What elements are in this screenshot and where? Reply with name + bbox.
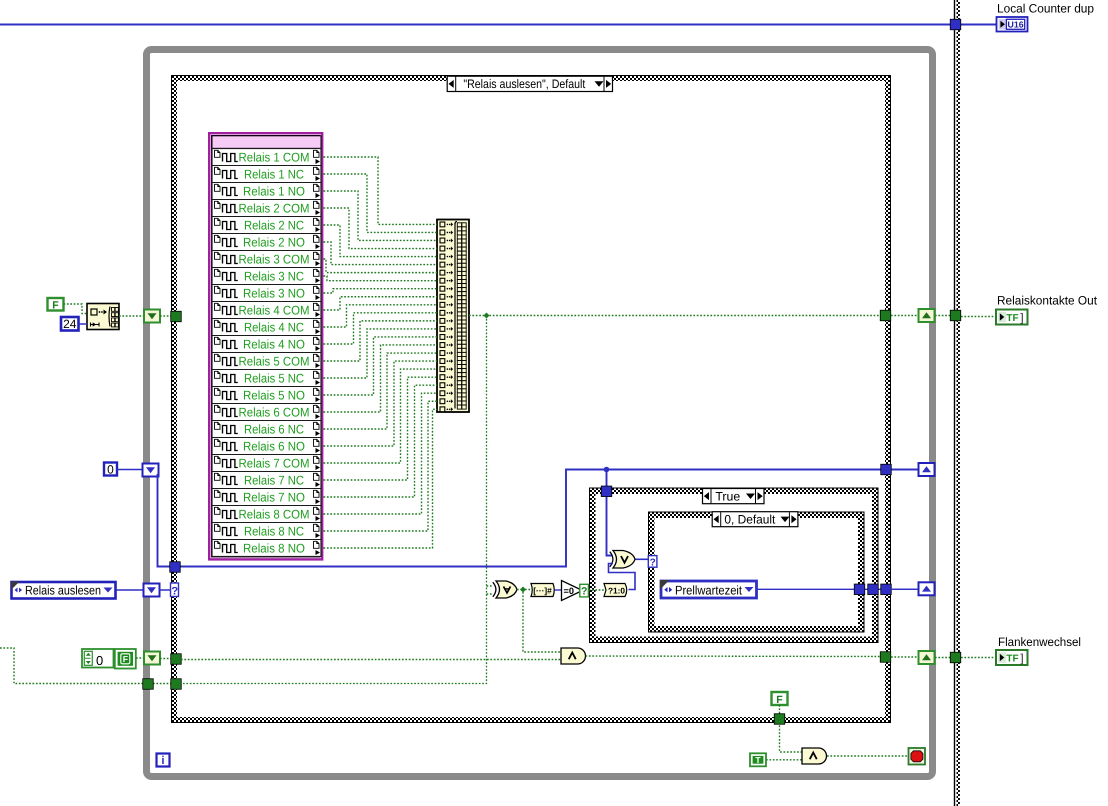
wire AND to stop terminal <box>827 755 908 757</box>
svg-text:Relais 3 NO: Relais 3 NO <box>243 287 305 301</box>
shift register right (flag) <box>919 651 935 664</box>
wire select-hook to OR lower input <box>609 564 636 590</box>
boolean local variable Relais 2 NC <box>212 217 321 233</box>
case tunnel green (y316) <box>171 311 182 322</box>
boolean local variable Relais 3 COM <box>212 251 321 267</box>
Select ?1:0 node <box>604 584 627 597</box>
enum constant Relais auslesen <box>11 582 116 599</box>
wire 0 to shift register <box>117 469 143 471</box>
label Flankenwechsel <box>998 635 1081 649</box>
svg-text:Relais 6 NC: Relais 6 NC <box>244 423 304 437</box>
wire F down through case border <box>780 705 803 752</box>
shift register right (enum) <box>919 582 935 595</box>
svg-text:Relais 5 NO: Relais 5 NO <box>243 389 305 403</box>
svg-text:24: 24 <box>63 317 77 331</box>
True case label <box>703 489 765 504</box>
wire OR out to inner selector <box>636 558 650 560</box>
wire F to Initialize Array <box>64 304 88 314</box>
svg-text:F: F <box>776 694 783 706</box>
wire enum to shift register <box>116 589 143 591</box>
shift register left (counter) <box>143 464 159 477</box>
local variable Prellwartezeit <box>660 580 757 598</box>
svg-text:F: F <box>52 300 59 312</box>
wire y315 gap <box>891 315 918 317</box>
cluster frame (Relais contacts) <box>209 133 322 559</box>
case tunnel green (y657) <box>880 652 891 663</box>
cluster header band <box>212 136 321 149</box>
svg-text:Relais 5 COM: Relais 5 COM <box>239 355 310 369</box>
wire array branch down to OR inputs and out bottom-left <box>181 316 493 684</box>
wire AND out to case tunnel <box>586 655 881 658</box>
wire Build Array output to case tunnel (boolean array) <box>469 315 880 317</box>
svg-text:0, Default: 0, Default <box>724 513 776 527</box>
wire Initialize Array to shift register <box>119 315 144 317</box>
boolean local variable Relais 6 NC <box>212 421 321 437</box>
junction at array output branch <box>484 313 490 319</box>
True case top tunnel (blue) <box>601 486 612 497</box>
AND gate (stop logic) <box>802 748 827 764</box>
0,Default case label <box>712 512 798 527</box>
Equal To 0 node <box>562 581 583 601</box>
wire Prellwartezeit to shift register <box>757 588 919 590</box>
boolean local variable Relais 8 COM <box>212 506 321 522</box>
tunnel blue on 0,Default border <box>854 584 865 595</box>
tunnel blue on True border <box>868 584 879 595</box>
boolean local variable Relais 1 NC <box>212 166 321 182</box>
svg-text:Relais 2 NO: Relais 2 NO <box>243 236 305 250</box>
svg-text:F: F <box>123 654 128 664</box>
boolean local variable Relais 1 NO <box>212 183 321 199</box>
boolean local variable Relais 8 NC <box>212 523 321 539</box>
svg-text:Relais 4 NC: Relais 4 NC <box>244 321 304 335</box>
boolean local variable Relais 5 NC <box>212 370 321 386</box>
svg-text:Relais 7 NC: Relais 7 NC <box>244 474 304 488</box>
edge tunnel green (y315) <box>950 310 961 321</box>
svg-text:Relais 1 NO: Relais 1 NO <box>243 185 305 199</box>
svg-text:TF: TF <box>1006 654 1018 665</box>
while loop border <box>147 50 933 777</box>
svg-text:?: ? <box>650 557 656 568</box>
boolean local variable Relais 5 NO <box>212 387 321 403</box>
wire 24 to Initialize Array <box>79 323 88 325</box>
wire feedback through border gap (y683) <box>153 683 171 685</box>
svg-text:Flankenwechsel: Flankenwechsel <box>998 635 1081 649</box>
loop stop terminal <box>909 748 926 765</box>
edge tunnel blue (y24) <box>950 19 961 30</box>
svg-text:?1:0: ?1:0 <box>608 586 625 596</box>
boolean local variable Relais 4 NC <box>212 319 321 335</box>
svg-text:U16: U16 <box>1008 19 1024 29</box>
svg-text:[···]#: [···]# <box>533 585 552 595</box>
indicator Relaiskontakte Out [TF] <box>996 310 1028 325</box>
boolean local variable Relais 2 NO <box>212 234 321 250</box>
wire Local Counter (blue, top) <box>0 23 997 25</box>
boolean local variable Relais 4 COM <box>212 302 321 318</box>
svg-text:Relais 8 COM: Relais 8 COM <box>239 508 310 522</box>
True case selector ? <box>580 584 589 597</box>
wire y315 to TF indicator <box>961 316 996 318</box>
svg-text:Relais 2 NC: Relais 2 NC <box>244 219 304 233</box>
shift register left (bool array) <box>144 310 160 323</box>
boolean local variable Relais 8 NO <box>212 540 321 556</box>
wire counter: SR down, along y566, up x566, right to right SR <box>158 470 919 567</box>
boolean local variable Relais 4 NO <box>212 336 321 352</box>
shift register right (counter) <box>919 463 935 476</box>
wire feedback outside loop (bottom-left, exits left edge) <box>0 648 143 684</box>
boolean local variable Relais 3 NO <box>212 285 321 301</box>
case tunnel blue (y469) <box>881 464 892 475</box>
wire counter branch down into True case <box>607 470 612 556</box>
svg-text:]: ] <box>1020 313 1023 325</box>
svg-text:Local Counter dup: Local Counter dup <box>997 2 1094 16</box>
svg-text:Relais 4 NO: Relais 4 NO <box>243 338 305 352</box>
svg-text:Relais 6 COM: Relais 6 COM <box>239 406 310 420</box>
svg-text:Relais 3 COM: Relais 3 COM <box>239 253 310 267</box>
shift register right (bool array) <box>919 309 935 322</box>
numeric constant 0 (counter init) <box>104 462 117 476</box>
boolean local variable Relais 1 COM <box>215 150 321 164</box>
case selector label "Relais auslesen", Default <box>447 76 612 91</box>
wire OR out to junction <box>517 589 521 591</box>
wire y589 gap <box>891 588 918 590</box>
svg-text:?: ? <box>581 586 587 598</box>
svg-text:Relais 7 COM: Relais 7 COM <box>239 457 310 471</box>
Initialize Array node <box>87 304 119 330</box>
Or Array Elements gate <box>493 581 517 598</box>
shift register left (flag bool) <box>144 652 160 665</box>
svg-text:Relais 6 NO: Relais 6 NO <box>243 440 305 454</box>
svg-text:?: ? <box>171 586 178 598</box>
wire junction down to AND gate <box>523 592 561 652</box>
wire y315 to edge tunnel <box>935 315 950 317</box>
wires cluster rows to Build Array inputs <box>324 157 438 548</box>
wire F to shift register <box>136 657 144 659</box>
wire to Equal0 <box>555 589 563 591</box>
svg-text:Relaiskontakte Out: Relaiskontakte Out <box>997 294 1098 308</box>
loop iteration terminal i <box>157 754 170 768</box>
svg-text:T: T <box>755 755 761 765</box>
boolean local variable Relais 6 COM <box>212 404 321 420</box>
svg-text:Relais 8 NC: Relais 8 NC <box>244 525 304 539</box>
svg-text:Relais 3 NC: Relais 3 NC <box>244 270 304 284</box>
0,Default case selector ? <box>648 556 657 569</box>
svg-text:Relais auslesen: Relais auslesen <box>25 584 101 598</box>
tunnel blue on case border (y589) <box>881 584 892 595</box>
case structure border <box>171 75 891 723</box>
boolean local variable Relais 7 NO <box>212 489 321 505</box>
wire y657 gap <box>891 656 918 658</box>
svg-text:0: 0 <box>107 462 114 476</box>
svg-text:Relais 5 NC: Relais 5 NC <box>244 372 304 386</box>
inner case structure True border <box>589 488 879 644</box>
indicator Flankenwechsel [TF] <box>996 650 1028 665</box>
junction diamond after OR <box>520 587 526 593</box>
svg-text:"Relais auslesen", Default: "Relais auslesen", Default <box>463 77 585 91</box>
numeric part of constant (0) <box>82 649 114 668</box>
case tunnel blue (y567) <box>170 562 181 573</box>
wire T to AND gate <box>766 759 802 761</box>
case tunnel green (y316 right) <box>880 310 891 321</box>
svg-text:True: True <box>715 489 740 503</box>
boolean local variable Relais 7 NC <box>212 472 321 488</box>
boolean local variable Relais 5 COM <box>212 353 321 369</box>
indicator U16 (Local Counter dup) <box>997 17 1028 32</box>
wire =0 to True-case selector <box>583 589 587 591</box>
svg-text:]: ] <box>1020 653 1023 665</box>
boolean local variable Relais 2 COM <box>212 200 321 216</box>
boolean constant F (top left) <box>48 298 64 312</box>
Boolean Array to Number node <box>531 584 554 597</box>
case selector terminal ? <box>171 583 179 598</box>
outer structure right edge (dashed band) <box>957 0 960 806</box>
boolean constant F (bottom) <box>772 692 788 706</box>
case tunnel green (y684 left) <box>171 679 182 690</box>
wire SR to case tunnel (y316) <box>160 315 172 317</box>
svg-text:Relais 7 NO: Relais 7 NO <box>243 491 305 505</box>
wire junction to BoolArrayToNum <box>525 589 531 591</box>
shift register left (enum) <box>144 584 160 597</box>
inner case structure 0,Default border <box>648 512 865 633</box>
svg-text:=0: =0 <box>564 586 574 596</box>
wire SR to case selector <box>160 589 171 591</box>
outer structure right edge (solid line) <box>954 0 956 806</box>
case tunnel green (y719) <box>774 714 785 725</box>
case tunnel green (y659) <box>171 654 182 665</box>
boolean constant T <box>750 753 766 766</box>
boolean local variable Relais 3 NC <box>212 268 321 284</box>
wire SR to case tunnel y659 <box>160 658 172 660</box>
wire y657 to TF indicator <box>961 657 996 659</box>
junction dot counter wire <box>604 467 610 473</box>
wire y657 to edge tunnel <box>935 657 950 659</box>
svg-text:Relais 2 COM: Relais 2 COM <box>239 202 310 216</box>
svg-text:TF: TF <box>1006 313 1018 324</box>
svg-text:Relais 1 NC: Relais 1 NC <box>244 168 304 182</box>
numeric constant 24 <box>61 317 79 331</box>
label Local Counter dup <box>997 2 1094 16</box>
svg-text:i: i <box>161 755 164 767</box>
cluster rows area <box>212 149 321 557</box>
Build Array node <box>437 220 469 413</box>
boolean constant F (button style) <box>115 649 136 669</box>
wire flag to AND gate (y659.5) <box>181 659 561 661</box>
svg-text:Relais 1 COM: Relais 1 COM <box>239 151 310 165</box>
boolean local variable Relais 7 COM <box>212 455 321 471</box>
svg-text:Relais 4 COM: Relais 4 COM <box>239 304 310 318</box>
label Relaiskontakte Out <box>997 294 1098 308</box>
svg-text:Prellwartezeit: Prellwartezeit <box>675 584 742 598</box>
wire True-selector to Select node <box>589 589 605 591</box>
svg-text:0: 0 <box>96 653 103 668</box>
AND gate (flank) <box>561 648 586 664</box>
OR gate <box>610 551 635 569</box>
edge tunnel green (y657) <box>950 652 961 663</box>
boolean local variable Relais 6 NO <box>212 438 321 454</box>
loop tunnel green (y684) <box>143 679 154 690</box>
svg-text:Relais 8 NO: Relais 8 NO <box>243 542 305 556</box>
